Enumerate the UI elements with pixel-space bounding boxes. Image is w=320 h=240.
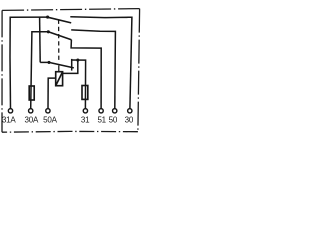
- node C junction dot: [47, 61, 50, 64]
- svg-text:50: 50: [109, 115, 118, 124]
- terminal 30: [128, 109, 132, 113]
- svg-text:31: 31: [81, 115, 90, 124]
- terminal 50: [113, 109, 117, 113]
- wire coil right side to node D: [63, 60, 78, 73]
- terminal 31: [83, 109, 87, 113]
- fuse F2 on 31 line: [82, 86, 88, 100]
- wire contact 1 to terminal 30: [70, 17, 132, 109]
- node B junction dot: [47, 30, 50, 33]
- switch arm S2: [48, 32, 71, 40]
- svg-text:30A: 30A: [24, 115, 38, 124]
- wire contact 3 to fuse and terminal 31: [72, 60, 86, 109]
- wire terminal 31A to node A: [10, 17, 48, 109]
- svg-text:31A: 31A: [2, 115, 16, 124]
- svg-text:30: 30: [125, 115, 134, 124]
- contact 3 fixed bar: [71, 59, 73, 71]
- wire arm2 tip to terminal 51: [71, 40, 101, 109]
- svg-text:51: 51: [97, 115, 106, 124]
- wire contact 2 upper to terminal 50: [71, 30, 115, 109]
- svg-text:50A: 50A: [43, 115, 57, 124]
- relay coil K1: [56, 72, 63, 86]
- terminal 31A: [8, 109, 12, 113]
- wire node B stub and 30A fuse line: [31, 32, 49, 109]
- terminal 30A: [29, 109, 33, 113]
- wire coil left side to terminal 50A: [48, 78, 56, 109]
- terminal 50A: [46, 109, 50, 113]
- fuse F1 on 30A line: [29, 86, 34, 100]
- node D junction dot: [76, 59, 79, 62]
- node A junction dot: [46, 16, 49, 19]
- switch arm S3: [49, 62, 74, 68]
- switch arm S1: [48, 17, 72, 23]
- wire bus vertical: [39, 17, 42, 62]
- terminal 51: [99, 109, 103, 113]
- wire node C stub: [40, 61, 49, 63]
- enclosure dash-dot border: [2, 9, 140, 133]
- mechanical linkage dashed: [58, 20, 60, 60]
